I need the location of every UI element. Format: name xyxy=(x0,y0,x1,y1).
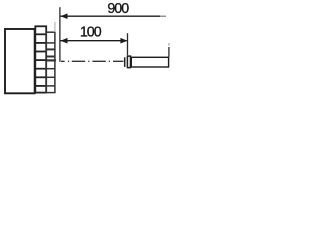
sensor head body xyxy=(5,29,35,93)
dimension line 900 xyxy=(61,15,161,17)
strain-relief fin section B xyxy=(46,32,56,92)
arrowhead left of 900 xyxy=(61,13,68,19)
probe tube xyxy=(131,57,168,67)
ferrule ring xyxy=(124,57,126,67)
strain-relief fin section A xyxy=(35,26,46,92)
probe collar xyxy=(127,56,130,68)
extension stub right of probe xyxy=(168,47,170,57)
dimension line 100 xyxy=(61,40,127,42)
arrowhead left of 100 xyxy=(61,38,68,44)
arrowhead right of 100 xyxy=(120,38,127,44)
extension line right (at collar) xyxy=(127,33,129,55)
faint rail stub above fin section B xyxy=(54,22,56,32)
svg-text:900: 900 xyxy=(107,1,129,17)
extension line left (at cable exit) xyxy=(59,7,61,62)
svg-text:100: 100 xyxy=(80,25,102,41)
cable centerline (dash-dot) xyxy=(61,60,123,62)
